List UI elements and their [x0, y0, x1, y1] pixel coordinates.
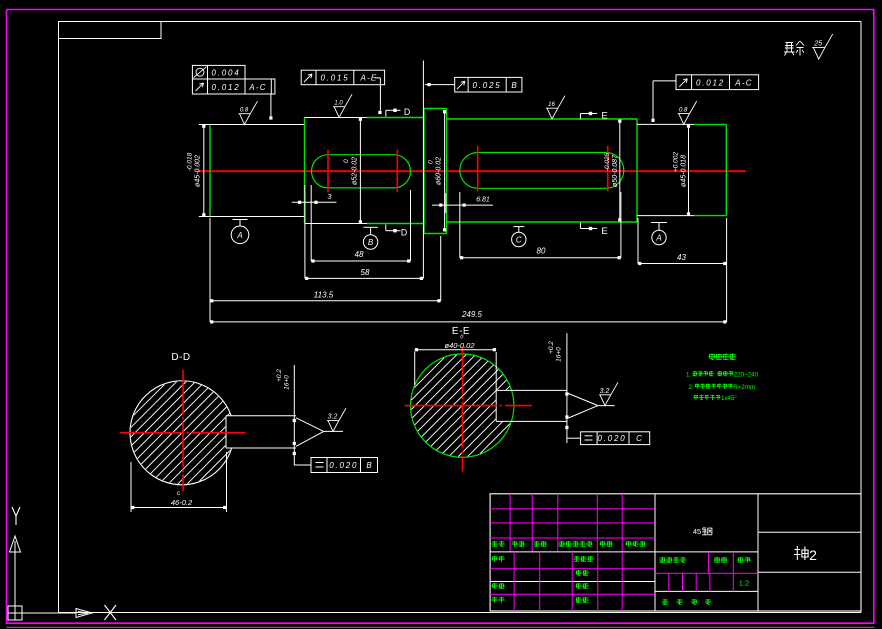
leader frame C	[567, 437, 581, 439]
tolerance frame F4 (runout 0.012 A-C)	[676, 75, 759, 90]
svg-text:ø40-0.02: ø40-0.02	[444, 341, 475, 350]
svg-text:A-C: A-C	[248, 83, 266, 92]
stage mark row	[659, 557, 750, 563]
datum C	[512, 227, 526, 247]
svg-text:80: 80	[537, 247, 546, 256]
svg-text:ø50-0.087: ø50-0.087	[612, 154, 619, 187]
svg-text:0.012: 0.012	[211, 83, 240, 92]
shaft shoulder phi60 outline	[424, 109, 447, 234]
svg-text:6.81: 6.81	[476, 197, 490, 204]
UCS X axis	[22, 609, 92, 618]
section D-D hatch	[131, 382, 231, 484]
dim 113.5	[210, 291, 441, 303]
svg-text:D: D	[404, 107, 410, 117]
dim 46-0.2	[131, 452, 227, 512]
ext line seg4-left	[637, 218, 639, 264]
svg-text:2: 2	[809, 547, 817, 563]
svg-text:+0.002: +0.002	[673, 152, 680, 172]
tolerance frame F3 (runout 0.025 B)	[455, 77, 522, 92]
keyway depth dim E-E	[548, 333, 569, 443]
svg-text:+0.2: +0.2	[548, 341, 555, 354]
ext line slotA-left	[310, 185, 312, 261]
svg-text:R=2mm: R=2mm	[733, 384, 755, 391]
section label D top	[386, 107, 410, 117]
dim 6.81	[432, 193, 493, 213]
svg-text:58: 58	[361, 268, 370, 277]
dim 249.5	[210, 310, 727, 324]
leader to 3.2 E-E	[567, 393, 615, 419]
row5 texts	[492, 556, 594, 562]
svg-text:45: 45	[693, 527, 701, 536]
svg-text:A-C: A-C	[734, 78, 752, 87]
dim 58	[305, 268, 423, 280]
datum A left	[231, 220, 249, 244]
svg-text:1.0: 1.0	[334, 101, 343, 107]
svg-text:0.012: 0.012	[696, 78, 725, 87]
UCS Y label	[12, 507, 20, 525]
svg-text:1.: 1.	[686, 371, 691, 378]
dim 3	[292, 192, 337, 204]
small c mark	[177, 491, 180, 497]
ext line 113.5-right	[440, 236, 442, 301]
title mid grid	[655, 552, 758, 592]
svg-text:0.025: 0.025	[472, 81, 501, 90]
roughness 0.8 segment1	[239, 101, 258, 124]
row8 texts	[492, 597, 589, 603]
keyway slot B outline	[460, 153, 624, 189]
UCS Y arrow	[10, 536, 21, 606]
datum A right	[651, 223, 667, 245]
svg-text:E: E	[601, 226, 607, 237]
ext line 58-right	[422, 61, 424, 279]
qiyu roughness 25	[812, 34, 833, 59]
UCS X label	[105, 605, 117, 620]
svg-text:25: 25	[813, 40, 822, 47]
dim phi45 left (ext stubs)	[199, 125, 210, 217]
svg-text:-0.025: -0.025	[604, 152, 611, 171]
leader F1	[269, 94, 272, 120]
svg-text:A: A	[655, 234, 661, 243]
section label E bottom	[580, 223, 607, 237]
section D-D title	[171, 352, 190, 363]
dim phi45 right	[673, 124, 691, 215]
sheet count row	[662, 599, 711, 605]
svg-text:B: B	[368, 238, 374, 247]
dim phi50	[604, 120, 621, 222]
svg-text:E: E	[601, 111, 607, 122]
roughness 3.2 E-E	[599, 382, 618, 405]
svg-text:249.5: 249.5	[461, 310, 483, 319]
header row texts	[492, 541, 646, 547]
svg-text:43: 43	[677, 253, 686, 262]
title block left upper grid	[490, 494, 655, 552]
dim 48	[311, 250, 410, 263]
keyway slot B arc-center marks	[478, 146, 608, 192]
note line 2	[689, 384, 756, 391]
section E-E title	[452, 326, 470, 337]
dim phi40-0.02	[415, 335, 497, 391]
svg-text:A: A	[236, 231, 242, 240]
section label D bottom	[386, 225, 407, 238]
svg-text:0.004: 0.004	[211, 69, 240, 78]
svg-text:C: C	[636, 434, 642, 443]
svg-text:B: B	[511, 81, 517, 90]
roughness 3.2 D-D	[327, 408, 346, 431]
svg-text:48: 48	[355, 250, 364, 259]
part name zhou2	[794, 546, 817, 563]
svg-text:16: 16	[548, 102, 555, 108]
ext line seg1-left	[209, 218, 211, 322]
svg-text:1x45°: 1x45°	[721, 395, 737, 402]
material 45 steel	[693, 527, 712, 536]
note line 3	[694, 395, 738, 402]
svg-text:C: C	[516, 236, 522, 245]
section E-E outline circle	[411, 354, 514, 457]
main view centerline	[198, 170, 747, 172]
svg-text:113.5: 113.5	[314, 291, 334, 300]
svg-text:0: 0	[343, 159, 350, 163]
leader F3	[425, 83, 455, 86]
section E-E keyway lines	[496, 390, 567, 421]
notes title (technical requirements)	[709, 353, 737, 360]
roughness 1.0 segment2	[333, 94, 352, 117]
tolerance frame F1 (cylindricity 0.004 / runout 0.012 A-C)	[192, 65, 275, 94]
svg-text:16+0: 16+0	[284, 375, 291, 390]
tolerance frame F2 (runout 0.015 A-E)	[301, 70, 384, 85]
roughness 0.8 segment4	[678, 101, 697, 124]
svg-text:3.2: 3.2	[328, 414, 338, 421]
keyway depth dim D-D	[276, 365, 296, 455]
svg-text:2.: 2.	[689, 384, 694, 391]
svg-text:B: B	[366, 461, 372, 470]
dim 43	[638, 253, 727, 265]
svg-text:0.020: 0.020	[329, 461, 358, 470]
section E-E centerlines	[405, 347, 532, 472]
UCS origin box	[8, 606, 22, 620]
svg-text:c: c	[177, 491, 180, 497]
ext line seg2-left	[304, 185, 306, 278]
datum B	[363, 227, 377, 249]
section label E top	[580, 111, 607, 122]
svg-text:16+0: 16+0	[556, 347, 563, 362]
shaft segment 4 outline	[637, 124, 726, 215]
svg-text:ø45-0.002: ø45-0.002	[195, 155, 202, 187]
svg-text:0: 0	[428, 160, 435, 164]
svg-text:0.8: 0.8	[240, 108, 249, 114]
scale 1:2	[739, 579, 749, 588]
leader F4	[651, 81, 676, 122]
leader F2	[375, 78, 382, 114]
svg-text:A-E: A-E	[360, 74, 378, 83]
shaft segment 2 outline	[305, 118, 425, 224]
svg-text:D: D	[401, 228, 407, 238]
top-left accessory box	[59, 22, 162, 39]
dim phi45 left	[187, 125, 206, 217]
svg-text:D-D: D-D	[171, 352, 190, 363]
right box lines	[758, 532, 861, 572]
roughness 1.6 segment3	[546, 96, 565, 119]
leader to 3.2 D-D	[296, 418, 343, 447]
section E-E hatch	[411, 355, 510, 457]
ext line slotB-right	[620, 192, 622, 258]
svg-text:0.020: 0.020	[597, 434, 626, 443]
dim phi60	[428, 110, 447, 232]
row6 texts	[576, 570, 589, 576]
svg-text:0.015: 0.015	[320, 74, 349, 83]
row7 texts	[492, 583, 589, 589]
title block left lower grid	[490, 552, 655, 611]
ext line slotB-left	[459, 192, 461, 258]
svg-text:0.8: 0.8	[679, 108, 688, 114]
tolerance frame symmetry 0.020 B	[311, 458, 378, 473]
shaft segment 1 outline	[210, 125, 305, 217]
svg-text:ø60-0.02: ø60-0.02	[436, 157, 443, 185]
dim 80	[460, 247, 621, 260]
section D-D centerlines	[120, 370, 246, 492]
leader frame B	[294, 448, 311, 465]
shaft segment 3 outline	[447, 119, 638, 222]
svg-text:ø45-0.018: ø45-0.018	[681, 155, 688, 187]
svg-text:1:2: 1:2	[739, 579, 749, 588]
title block mid horizontal white	[490, 551, 758, 553]
tolerance frame symmetry 0.020 C	[581, 432, 650, 445]
svg-text:3.2: 3.2	[600, 388, 610, 395]
section D-D outline	[130, 381, 296, 485]
svg-text:220~240: 220~240	[734, 371, 759, 378]
keyway slot A outline	[312, 155, 411, 188]
keyway slot A arc-center marks	[328, 150, 397, 193]
qiyu text (rest of surfaces)	[784, 41, 804, 56]
svg-text:46-0.2: 46-0.2	[171, 498, 193, 507]
ext line shaft-right	[726, 218, 728, 322]
dim phi52	[343, 118, 362, 224]
svg-text:+0.2: +0.2	[276, 369, 283, 382]
note line 1	[686, 371, 759, 378]
svg-text:-0.018: -0.018	[187, 152, 194, 171]
title block outer	[490, 494, 861, 611]
ext line slotA-right	[410, 190, 412, 261]
title block divider verticals white	[655, 494, 758, 611]
svg-text:ø52-0.02: ø52-0.02	[351, 157, 358, 185]
